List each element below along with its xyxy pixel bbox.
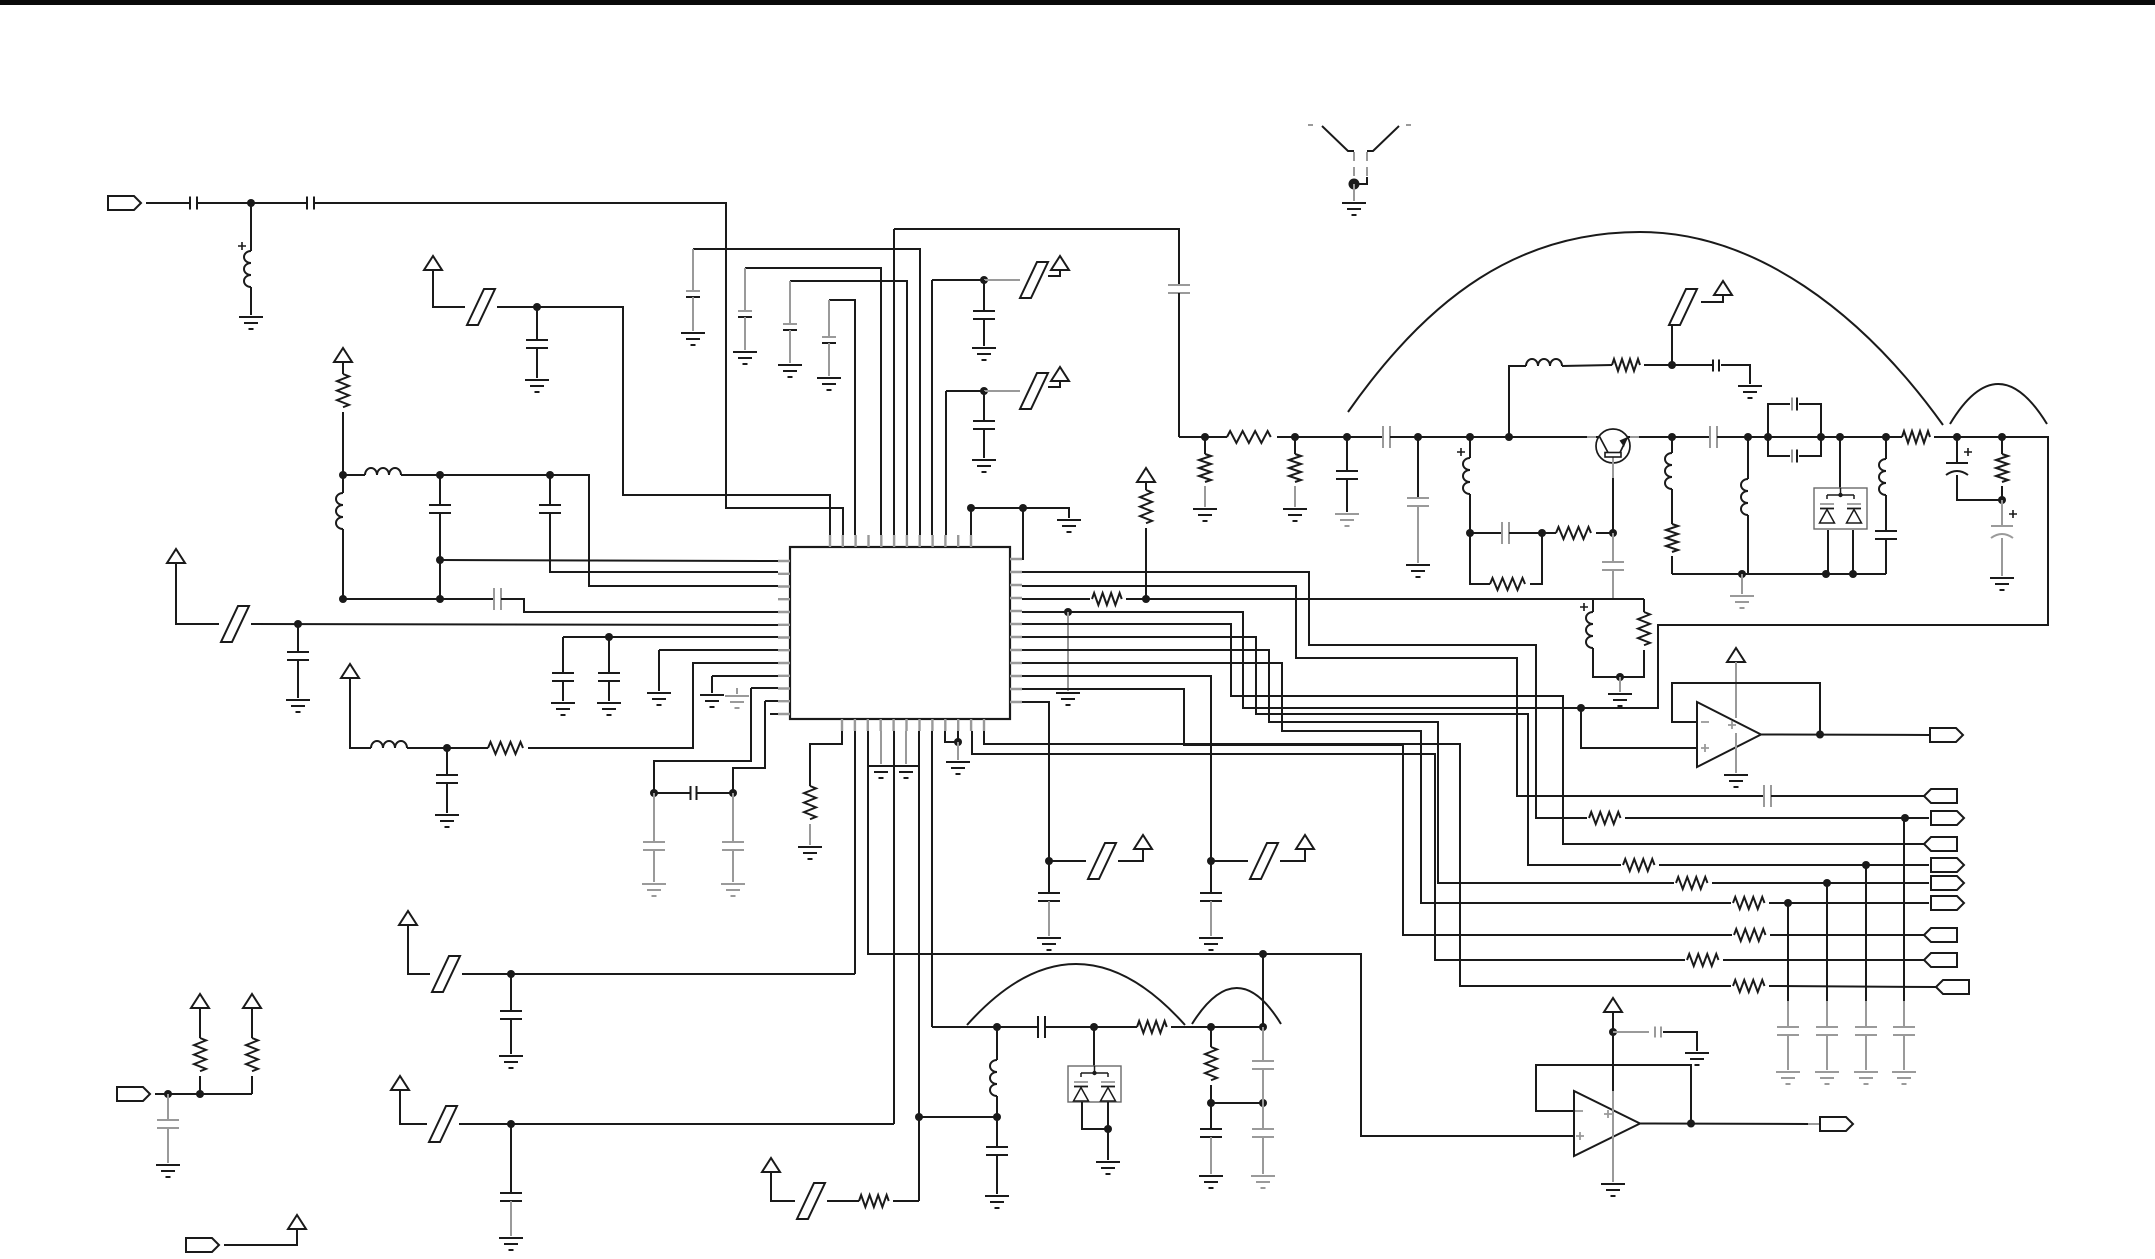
wire (342, 412, 344, 475)
wire feedback U3 (1536, 1065, 1691, 1124)
wire (1280, 849, 1305, 861)
node (954, 738, 962, 746)
node (436, 556, 444, 564)
node (1466, 529, 1474, 537)
capacitor C2 (series) (307, 197, 314, 210)
wire (1612, 1012, 1614, 1091)
capacitor C33 (1200, 893, 1222, 901)
wire (1048, 901, 1050, 936)
node (1953, 433, 1961, 441)
wire (1619, 677, 1621, 692)
ground (1990, 578, 2014, 590)
wire (342, 475, 344, 493)
wire (224, 1229, 297, 1245)
ground (1730, 596, 1754, 608)
wire (1210, 1137, 1212, 1174)
wire (1885, 495, 1887, 531)
resistor R20 (1733, 980, 1765, 992)
wire (1612, 1091, 1614, 1182)
resistor R6 (1490, 578, 1525, 590)
ground (525, 380, 549, 392)
wire (1262, 1069, 1264, 1103)
connector J3 (186, 1238, 219, 1252)
wire (983, 280, 985, 311)
wire IC pin T12 (970, 508, 972, 535)
ground (681, 333, 705, 345)
ground (1057, 520, 1081, 532)
arc (wire hop) (1192, 988, 1281, 1024)
node (1201, 433, 1209, 441)
ferrite bead FB6 (1250, 843, 1278, 879)
wire to IC pin L9 (528, 663, 778, 748)
wire (400, 1090, 427, 1124)
wire (1262, 1103, 1264, 1129)
capacitor C40 (157, 1120, 179, 1128)
wire (1787, 903, 1789, 1001)
wire (1852, 530, 1854, 574)
wire (744, 317, 746, 350)
wire (1082, 1102, 1108, 1129)
wire IC pin L11 loop (654, 688, 751, 793)
wire (1712, 882, 1929, 884)
wire (1741, 574, 1743, 594)
wire (971, 508, 1069, 518)
wire (1885, 539, 1887, 574)
wire (996, 1155, 998, 1194)
wire (827, 1200, 859, 1202)
power VCC18 arrow (1604, 998, 1622, 1012)
wire (1799, 404, 1821, 437)
ground (1283, 509, 1307, 521)
wire IC pin L7 (563, 636, 778, 638)
wire (608, 637, 610, 673)
node (1862, 861, 1870, 869)
ground (1724, 775, 1748, 787)
ground (1601, 1184, 1625, 1196)
wire (1769, 902, 1929, 904)
node (1616, 673, 1624, 681)
wire (1509, 532, 1542, 534)
capacitor C25 (series) (1713, 360, 1719, 372)
ground (985, 1196, 1009, 1208)
wire (2001, 538, 2003, 576)
wire (984, 279, 1020, 281)
wire U3 output (1640, 1123, 1808, 1126)
node (1207, 1099, 1215, 1107)
ground (894, 766, 918, 778)
wire to IC pin L3 (401, 475, 778, 586)
node (1764, 433, 1772, 441)
wire (1171, 1026, 1263, 1028)
wire (146, 202, 190, 204)
wire (1211, 860, 1248, 862)
IC U1 pin stubs (778, 535, 1022, 731)
wire (1542, 532, 1556, 534)
ferrite bead FB10 (797, 1183, 825, 1219)
resistor R26 (series) (1227, 431, 1271, 443)
capacitor C27 (1791, 398, 1793, 411)
wire (1118, 849, 1143, 861)
node (1901, 814, 1909, 822)
ferrite bead FB4 (1020, 373, 1048, 409)
wire (1671, 489, 1673, 524)
wire (549, 475, 551, 505)
wire cap cluster C to IC pin T7 (790, 281, 907, 535)
wire main RF line right (1717, 436, 1902, 438)
ground (1608, 694, 1632, 706)
ground (1685, 1053, 1709, 1065)
wire (1826, 1035, 1828, 1070)
wire (1644, 364, 1713, 366)
wire (2001, 500, 2003, 526)
wire IC pin L13 (770, 713, 778, 715)
ground (1892, 1072, 1916, 1084)
wire (1048, 861, 1050, 893)
resistor R2 (488, 742, 523, 754)
connector J2 (117, 1087, 150, 1101)
wire IC pin R7 bus (1022, 637, 1621, 865)
wire (736, 688, 738, 694)
wire (1723, 959, 1924, 961)
capacitor C3 (526, 340, 548, 348)
connector OUT3 (1931, 876, 1964, 890)
node (1577, 704, 1585, 712)
wire (297, 624, 299, 652)
capacitor C12 (643, 842, 665, 850)
capacitor C9 (598, 673, 620, 681)
wire IC pin L11 (751, 687, 778, 689)
wire (1903, 1035, 1905, 1070)
ground (1056, 693, 1080, 705)
capacitor C16 (783, 323, 797, 325)
inductor L1 (polarized) (244, 251, 251, 287)
wire IC pin B12 bus (984, 731, 1731, 986)
capacitor C5 (539, 505, 561, 513)
wire (1839, 437, 1841, 488)
wire (771, 1172, 795, 1201)
wire (653, 793, 655, 842)
capacitor C11 (series) (691, 786, 697, 800)
inductor L4 (371, 741, 407, 748)
node (1882, 433, 1890, 441)
wire IC pin R9 bus (1022, 663, 1731, 903)
wire (789, 330, 791, 363)
wire (1067, 612, 1069, 691)
ground (286, 700, 310, 712)
diode pair D1 (ESD) (1814, 488, 1867, 529)
wire (1470, 532, 1502, 534)
node (164, 1090, 172, 1098)
resistor R18 (804, 786, 816, 819)
ground (721, 884, 745, 896)
node (1687, 1120, 1695, 1128)
wire (251, 1008, 253, 1038)
wire (433, 270, 465, 307)
node (605, 633, 613, 641)
transistor Q1 (1596, 429, 1630, 463)
connector OUT2 (1931, 858, 1964, 872)
ground (869, 766, 893, 778)
wire (828, 300, 830, 337)
wire feedback U2 (1672, 683, 1820, 735)
ground (700, 695, 724, 707)
capacitor C8 (552, 673, 574, 681)
capacitor C30 (polarized) (1946, 463, 1968, 475)
resistor R13 (1589, 812, 1621, 824)
node (507, 970, 515, 978)
wire (446, 748, 448, 775)
node (196, 1090, 204, 1098)
wire (1625, 817, 1929, 819)
wire IC pin L12 (765, 700, 778, 702)
connector IN4 (1924, 953, 1957, 967)
ferrite bead FB3 (1020, 262, 1048, 298)
wire (1612, 570, 1614, 599)
node (1259, 1023, 1267, 1031)
wire (1826, 883, 1828, 1001)
resistor R25 (859, 1195, 889, 1207)
capacitor C_1866 (1855, 1027, 1877, 1035)
wire (654, 792, 690, 794)
capacitor C10 (436, 775, 458, 783)
node (339, 595, 347, 603)
wire (1865, 865, 1867, 1001)
wire IC pin B5 (893, 731, 895, 1124)
wire to IC pin R1 (1022, 508, 1023, 559)
node (1104, 1125, 1112, 1133)
resistor R24 (246, 1038, 258, 1071)
wire (199, 1076, 201, 1094)
wire (1903, 1001, 1905, 1027)
wire IC pin L10 (712, 675, 778, 677)
wire (1671, 437, 1673, 453)
power VCC11 arrow (191, 994, 209, 1008)
wire (1470, 533, 1490, 584)
wire cap cluster A to IC pin T8 (693, 249, 920, 535)
wire (250, 203, 252, 251)
wire (2001, 437, 2003, 454)
ground (1251, 1176, 1275, 1188)
ground (1037, 938, 1061, 950)
wire (176, 563, 219, 624)
wire (828, 343, 830, 376)
wire (919, 1116, 997, 1118)
wire IC pin B7 (918, 731, 920, 1117)
capacitor C31 (polarized) (1991, 526, 2013, 538)
ground (1335, 514, 1359, 526)
node (1259, 950, 1267, 958)
ground (733, 352, 757, 364)
wire to IC pin L5 (501, 599, 778, 612)
capacitor C_1788 (1777, 1027, 1799, 1035)
node (993, 1023, 1001, 1031)
wire (250, 287, 252, 315)
resistor R22 (1205, 1047, 1217, 1080)
wire (2001, 486, 2003, 500)
capacitor C17 (822, 336, 836, 338)
power VCC2 arrow (334, 348, 352, 362)
wire to IC pin L1 (440, 560, 778, 561)
wire (1178, 293, 1180, 437)
wire IC pin R2 bus (1022, 572, 1587, 818)
node (546, 471, 554, 479)
wire (342, 529, 344, 599)
wire IC pin L8 (659, 649, 778, 651)
power VCC4 arrow (341, 664, 359, 678)
node (1784, 899, 1792, 907)
wire IC pin B8 (931, 731, 933, 1027)
node (1259, 1099, 1267, 1107)
wire (439, 560, 441, 599)
wire (744, 268, 746, 311)
wire (1294, 437, 1296, 454)
node (1998, 433, 2006, 441)
top black border bar (0, 0, 2155, 5)
ground (817, 378, 841, 390)
wire (1262, 954, 1264, 1027)
ground (597, 703, 621, 715)
resistor R14 (1623, 859, 1655, 871)
inductor L2 (365, 468, 401, 475)
wire IC pin B1 (810, 731, 842, 786)
arc (wire hop) (967, 964, 1185, 1025)
wire (996, 1117, 998, 1147)
wire (343, 474, 365, 476)
node (980, 276, 988, 284)
wire (167, 1128, 169, 1163)
wire (407, 747, 488, 749)
wire (732, 793, 734, 842)
ferrite bead FB5 (1669, 289, 1697, 325)
node (1609, 1028, 1617, 1036)
node (1609, 529, 1617, 537)
node (533, 303, 541, 311)
ground (972, 460, 996, 472)
wire (1747, 515, 1749, 574)
wire (697, 792, 733, 794)
power VCC16 arrow (762, 1158, 780, 1172)
node (1064, 608, 1072, 616)
wire (1509, 366, 1526, 437)
node (967, 504, 975, 512)
wire (1613, 1031, 1649, 1033)
wire (932, 279, 984, 281)
capacitor C1 (series) (190, 197, 197, 210)
capacitor C37 (1200, 1129, 1222, 1137)
capacitor C26 (1602, 562, 1624, 570)
wire (297, 660, 299, 698)
wire IC pin B4 (880, 731, 882, 764)
wire (1671, 325, 1673, 365)
ground (642, 884, 666, 896)
power VCC1 arrow (424, 256, 442, 270)
wire (1045, 1026, 1137, 1028)
wire (1957, 475, 2002, 500)
wire (1735, 662, 1737, 718)
wire (653, 850, 655, 882)
wire main RF line mid (1390, 436, 1710, 438)
wire (1145, 482, 1147, 490)
wire (932, 1026, 1038, 1028)
connector IN5 (1936, 980, 1969, 994)
capacitor C36 (986, 1147, 1008, 1155)
wire to IC pin L2 (550, 513, 778, 572)
resistor R19 (1687, 954, 1719, 966)
wire IC pin B3 (868, 731, 1263, 954)
ground (1096, 1162, 1120, 1174)
ground (1815, 1072, 1839, 1084)
wire (1593, 648, 1644, 677)
wire (1903, 818, 1905, 1001)
capacitor C23b (1407, 498, 1429, 506)
ground (499, 1238, 523, 1250)
capacitor C43 (series) (1655, 1027, 1661, 1038)
wire to op-amp2 + (1263, 954, 1574, 1136)
wire (1262, 1137, 1264, 1174)
inductor L3 (336, 493, 343, 529)
resistor R4 (1289, 454, 1301, 482)
node (507, 1120, 515, 1128)
wire (1277, 436, 1383, 438)
capacitor C20 (973, 421, 995, 429)
node (1849, 570, 1857, 578)
wire (562, 681, 564, 701)
op-amp U2 (1697, 702, 1761, 767)
wire (1107, 1129, 1109, 1160)
wire (1787, 1035, 1789, 1070)
wire (1210, 1085, 1212, 1103)
ground (972, 348, 996, 360)
node (1817, 433, 1825, 441)
wire IC pin B9 (945, 731, 958, 742)
wire (1294, 486, 1296, 507)
wire (1210, 901, 1212, 936)
wire (1210, 861, 1212, 893)
wire (1357, 177, 1367, 184)
capacitor C41 (500, 1011, 522, 1019)
capacitor C4 (429, 505, 451, 513)
wire (1417, 437, 1419, 498)
wire (957, 742, 959, 760)
wire (1145, 528, 1147, 599)
capacitor C35 (series) (1038, 1016, 1045, 1038)
resistor R1 (337, 374, 349, 407)
wire (1663, 1032, 1697, 1051)
ground (725, 696, 749, 708)
wire (251, 1076, 253, 1094)
wire (711, 676, 713, 693)
capacitor C34 (1038, 893, 1060, 901)
wire (1417, 506, 1419, 563)
node (1343, 433, 1351, 441)
capacitor C18 (1168, 285, 1190, 293)
wire (1799, 437, 1821, 456)
wire (1808, 1123, 1820, 1125)
ferrite bead FB8 (432, 956, 460, 992)
node (436, 471, 444, 479)
wire (733, 701, 765, 793)
node (1207, 1023, 1215, 1031)
wire (1469, 494, 1471, 533)
wire IC pin R8 bus (1022, 650, 1674, 883)
node (1998, 496, 2006, 504)
arc (wire hop small) (1950, 384, 2047, 424)
node (1207, 857, 1215, 865)
wire cap cluster B to IC pin T5 (745, 268, 881, 535)
resistor R17 (1734, 929, 1766, 941)
node (980, 387, 988, 395)
resistor R11 (1092, 593, 1122, 605)
